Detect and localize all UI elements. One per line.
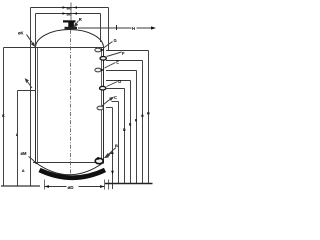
svg-text:øM: øM [21, 151, 28, 156]
top dimension 2 right arrow [74, 12, 78, 15]
right bracket L7 horizontal [106, 107, 113, 109]
apex nozzle leader arrow [75, 21, 79, 27]
top nozzle cap plate [63, 20, 76, 22]
tank right wall inner line [101, 48, 103, 164]
top dimension 1 right arrow [74, 6, 78, 9]
bottom dimension right arrow [100, 185, 105, 188]
bottom base extension line right [104, 180, 106, 190]
total height arrowhead [151, 26, 156, 29]
right drain leader 1 arrow [105, 153, 112, 158]
svg-text:H: H [132, 26, 135, 31]
tank left wall outer line [35, 48, 37, 164]
left baseline [1, 185, 40, 187]
svg-text:R: R [79, 17, 82, 22]
svg-text:F: F [135, 118, 138, 123]
right bracket L5 horizontal [106, 88, 125, 90]
right bracket L7 vertical [112, 108, 114, 190]
tank bottom dish outline [36, 163, 104, 175]
left extension line x35.5 top [35, 14, 37, 48]
top nozzle stub body [68, 22, 74, 28]
svg-text:K: K [2, 113, 5, 118]
bottom diameter dimension line [45, 186, 105, 188]
tank bottom tangent chord line [33, 162, 104, 164]
right nozzle N3 flange [95, 68, 101, 72]
short extension stub x108.6 [108, 180, 110, 190]
tank top dome [36, 30, 104, 48]
total height dimension line with right arrow [78, 27, 152, 29]
tick mark on total height line [116, 25, 118, 30]
right nozzle N2 flange [100, 57, 106, 61]
svg-text:D: D [118, 79, 121, 84]
right nozzle N2 leader [107, 52, 122, 57]
leader from OK label to dome corner [27, 35, 35, 47]
svg-text:øD: øD [68, 185, 75, 190]
right bracket L2 vertical [142, 61, 144, 184]
top dimension 2 left arrow [63, 12, 67, 15]
svg-text:øK: øK [18, 31, 24, 36]
tank right wall outer line [103, 48, 105, 164]
svg-text:D: D [123, 127, 126, 132]
bottom dimension left arrow [45, 185, 50, 188]
svg-text:C: C [97, 156, 100, 161]
right bracket L6 horizontal [112, 101, 119, 103]
leader from OM label to tank bottom corner [29, 157, 37, 165]
left extension line x30.5 [30, 8, 32, 186]
tank left wall inner line [37, 48, 39, 164]
tank top tangent chord line [4, 47, 104, 49]
right bracket L3 horizontal [106, 70, 137, 72]
right bracket L4 vertical [130, 81, 132, 184]
top dimension 2 right extension [100, 14, 102, 43]
right nozzle N3 leader [105, 63, 116, 69]
right nozzle N4 flange [100, 86, 106, 90]
right nozzle N4 leader [107, 82, 118, 87]
svg-text:L: L [16, 132, 19, 137]
svg-text:B: B [115, 143, 118, 148]
left wall leader arrow [26, 79, 33, 88]
svg-text:ød: ød [67, 6, 72, 11]
right vertical A arrowhead [111, 171, 114, 175]
svg-text:G: G [141, 113, 144, 118]
right nozzle N3 arrowhead [101, 69, 105, 72]
svg-text:A: A [22, 168, 25, 173]
right bracket L3 vertical [136, 71, 138, 184]
right bracket L5 vertical [124, 89, 126, 184]
svg-text:H: H [147, 111, 150, 116]
right drain leader 2 arrow [106, 148, 116, 157]
svg-text:E: E [129, 122, 132, 127]
tank vertical centerline (dash-dot) [70, 30, 72, 176]
drain nozzle oval bottom right [95, 158, 103, 163]
svg-text:G: G [114, 38, 117, 43]
tank bottom black base ring [40, 170, 106, 178]
svg-text:E: E [116, 60, 119, 65]
top dimension 1 right extension [108, 8, 110, 51]
svg-text:ød: ød [67, 12, 72, 17]
right bracket L1 horizontal [106, 50, 149, 52]
right nozzle N1 leader [104, 42, 113, 49]
right nozzle N5 flange [97, 106, 103, 110]
right bracket L4 horizontal [106, 80, 131, 82]
right baseline [105, 183, 153, 185]
right nozzle N1 arrowhead [101, 49, 105, 52]
left bracket horizontal y90.5 [18, 90, 36, 92]
svg-text:A: A [111, 150, 114, 155]
svg-text:F: F [122, 51, 125, 56]
top dimension line 1 [31, 7, 109, 9]
left dimension line x3.5 [3, 48, 5, 186]
svg-text:C: C [114, 95, 117, 100]
bottom base extension line left [44, 180, 46, 190]
top nozzle base weld smudge [65, 27, 78, 29]
right bracket L6 vertical [118, 102, 120, 184]
top nozzle extension line [70, 3, 72, 21]
right bracket L1 vertical [148, 51, 150, 184]
right bracket L2 horizontal [106, 60, 143, 62]
top dimension line 2 [36, 13, 101, 15]
top dimension 1 left arrow [63, 6, 67, 9]
right nozzle N5 leader [102, 98, 114, 107]
left dimension line x17.5 [17, 91, 19, 186]
right nozzle N1 flange [95, 48, 101, 52]
